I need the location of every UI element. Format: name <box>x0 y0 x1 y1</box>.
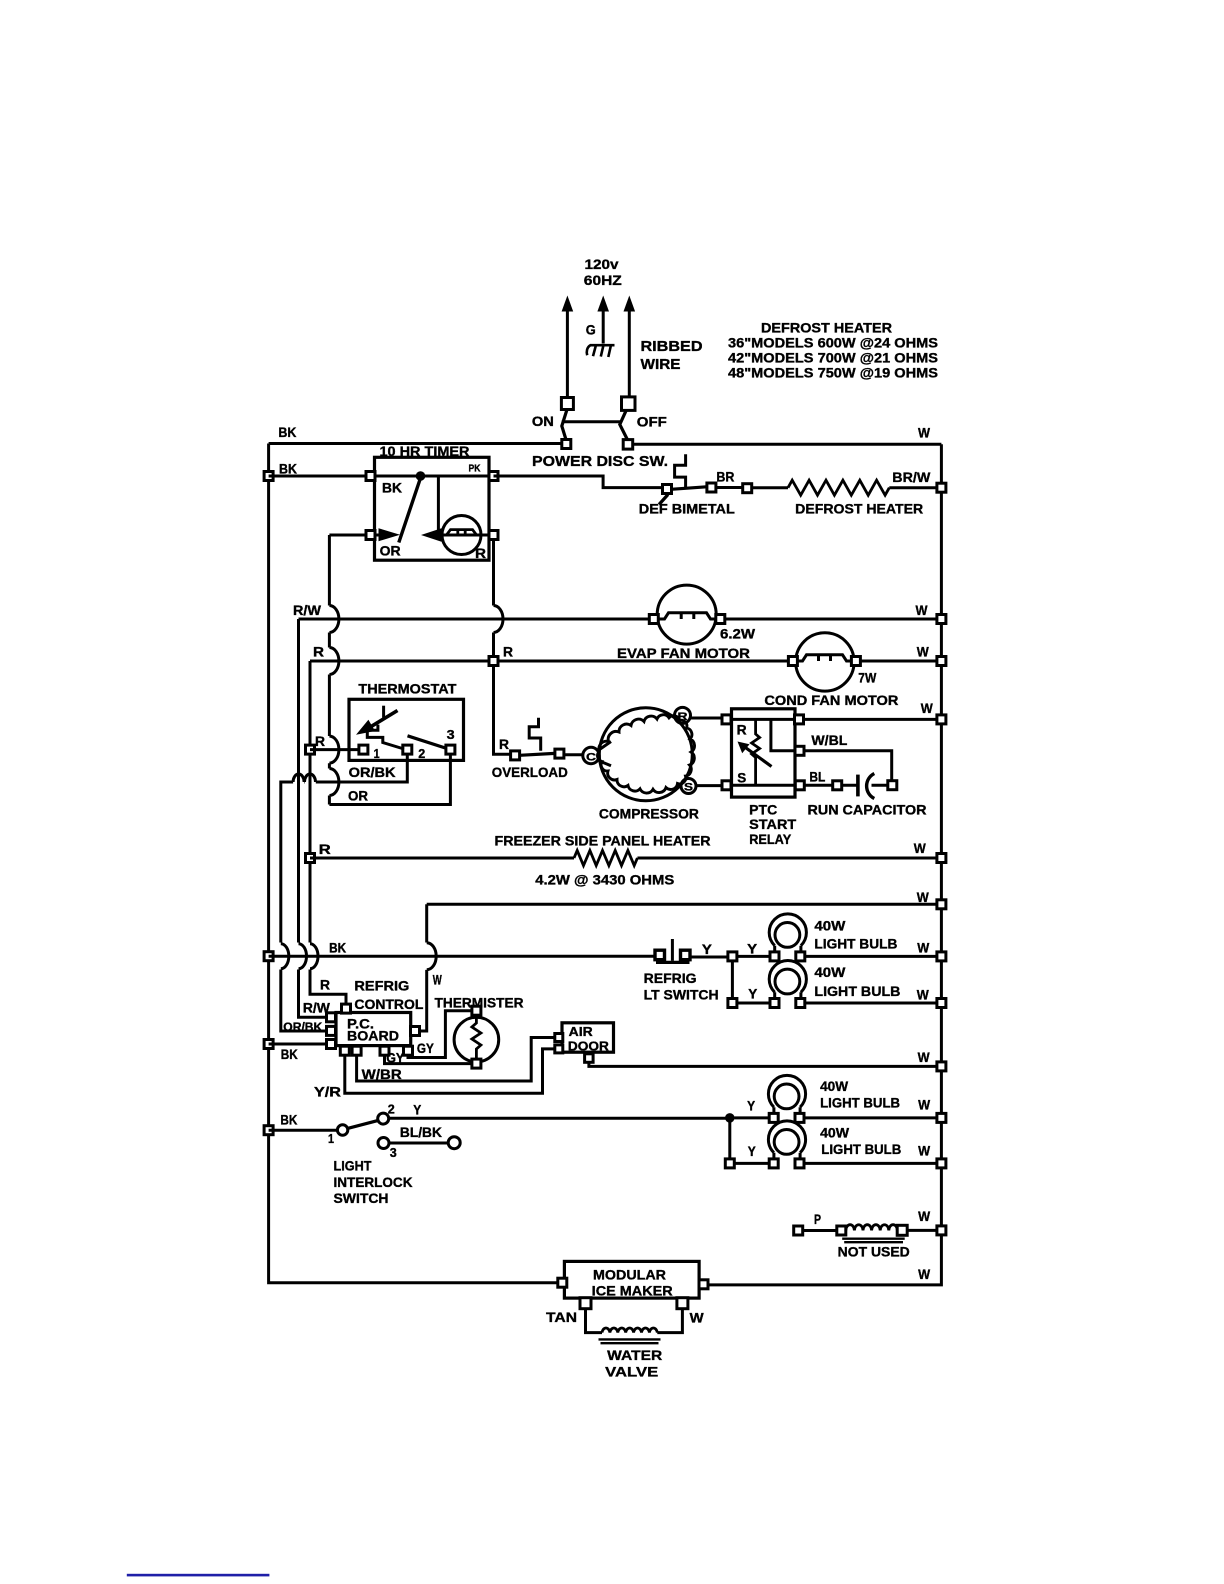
svg-text:VALVE: VALVE <box>605 1364 658 1379</box>
svg-text:GY: GY <box>417 1041 434 1056</box>
svg-text:BR: BR <box>716 469 734 484</box>
svg-text:40W: 40W <box>820 1126 849 1141</box>
svg-text:R/W: R/W <box>293 603 321 618</box>
svg-text:1: 1 <box>328 1131 334 1146</box>
svg-text:FREEZER SIDE PANEL HEATER: FREEZER SIDE PANEL HEATER <box>495 834 711 849</box>
svg-text:BL: BL <box>809 770 825 785</box>
svg-text:3: 3 <box>447 727 455 742</box>
svg-text:36"MODELS 600W @24 OHMS: 36"MODELS 600W @24 OHMS <box>728 335 938 350</box>
svg-text:Y: Y <box>747 941 757 956</box>
svg-text:4.2W @ 3430 OHMS: 4.2W @ 3430 OHMS <box>535 873 674 888</box>
svg-text:W: W <box>918 1097 930 1112</box>
svg-text:W: W <box>918 1267 930 1282</box>
svg-text:W: W <box>917 645 929 660</box>
svg-text:W: W <box>433 972 442 987</box>
svg-text:C: C <box>586 751 596 763</box>
svg-text:SWITCH: SWITCH <box>334 1191 389 1206</box>
svg-text:W: W <box>916 603 928 618</box>
svg-text:DEFROST HEATER: DEFROST HEATER <box>761 321 892 336</box>
svg-text:MODULAR: MODULAR <box>593 1268 666 1283</box>
svg-text:W: W <box>690 1311 704 1326</box>
svg-text:W/BL: W/BL <box>811 733 847 748</box>
svg-text:W: W <box>917 988 929 1003</box>
svg-text:2: 2 <box>388 1101 395 1116</box>
svg-text:THERMOSTAT: THERMOSTAT <box>358 682 457 697</box>
svg-text:PK: PK <box>469 464 482 475</box>
svg-text:BR/W: BR/W <box>892 470 930 485</box>
svg-text:OFF: OFF <box>637 414 667 429</box>
svg-text:LIGHT: LIGHT <box>334 1158 373 1173</box>
svg-text:OR: OR <box>380 543 401 558</box>
svg-text:R: R <box>315 734 325 749</box>
svg-text:EVAP FAN MOTOR: EVAP FAN MOTOR <box>617 646 750 661</box>
svg-text:GY: GY <box>386 1051 404 1066</box>
svg-text:TAN: TAN <box>546 1310 577 1325</box>
svg-text:BK: BK <box>278 425 296 440</box>
svg-text:BL/BK: BL/BK <box>400 1125 442 1140</box>
svg-text:REFRIG: REFRIG <box>354 979 409 994</box>
svg-text:W: W <box>921 701 933 716</box>
svg-text:R: R <box>678 711 688 723</box>
svg-text:BK: BK <box>329 941 346 956</box>
svg-text:Y/R: Y/R <box>314 1085 341 1100</box>
svg-text:S: S <box>737 771 746 786</box>
svg-text:OVERLOAD: OVERLOAD <box>492 765 568 780</box>
svg-text:W/BR: W/BR <box>362 1067 402 1082</box>
svg-text:Y: Y <box>747 1099 755 1114</box>
svg-text:POWER DISC SW.: POWER DISC SW. <box>532 454 668 470</box>
svg-text:W: W <box>914 841 926 856</box>
svg-text:10 HR TIMER: 10 HR TIMER <box>380 444 470 459</box>
svg-text:ON: ON <box>532 414 554 429</box>
svg-text:48"MODELS 750W @19 OHMS: 48"MODELS 750W @19 OHMS <box>728 365 938 380</box>
svg-text:7W: 7W <box>858 670 876 685</box>
svg-text:WIRE: WIRE <box>641 357 681 373</box>
svg-text:G: G <box>586 323 596 338</box>
svg-text:BK: BK <box>279 462 297 477</box>
svg-text:LIGHT BULB: LIGHT BULB <box>821 1142 901 1157</box>
svg-text:BOARD: BOARD <box>347 1029 399 1044</box>
svg-text:WATER: WATER <box>607 1348 662 1363</box>
svg-text:START: START <box>749 817 797 832</box>
svg-text:LIGHT BULB: LIGHT BULB <box>820 1096 900 1111</box>
svg-text:120v: 120v <box>585 257 620 272</box>
svg-text:RIBBED: RIBBED <box>641 339 703 355</box>
svg-text:BK: BK <box>281 1047 298 1062</box>
svg-text:OR/BK: OR/BK <box>349 765 396 780</box>
svg-text:R: R <box>319 842 331 857</box>
svg-text:AIR: AIR <box>569 1025 593 1039</box>
svg-text:1: 1 <box>374 746 380 761</box>
svg-text:Y: Y <box>413 1102 421 1117</box>
svg-text:40W: 40W <box>820 1079 848 1094</box>
svg-text:3: 3 <box>390 1145 397 1160</box>
svg-text:R: R <box>499 737 509 752</box>
svg-text:R: R <box>737 723 747 738</box>
svg-text:DEF BIMETAL: DEF BIMETAL <box>639 502 735 517</box>
svg-text:OR/BK: OR/BK <box>283 1020 322 1034</box>
svg-text:BK: BK <box>280 1113 297 1128</box>
svg-text:W: W <box>918 1144 930 1159</box>
svg-text:R/W: R/W <box>303 1001 330 1016</box>
svg-text:NOT USED: NOT USED <box>838 1245 910 1260</box>
svg-text:ICE MAKER: ICE MAKER <box>592 1283 673 1298</box>
svg-text:REFRIG: REFRIG <box>644 971 697 986</box>
svg-text:60HZ: 60HZ <box>584 273 622 288</box>
svg-text:W: W <box>917 941 929 956</box>
svg-text:W: W <box>918 426 930 441</box>
svg-text:COMPRESSOR: COMPRESSOR <box>599 807 699 822</box>
svg-text:LIGHT BULB: LIGHT BULB <box>814 984 900 999</box>
svg-text:OR: OR <box>348 789 368 804</box>
svg-text:INTERLOCK: INTERLOCK <box>334 1175 413 1190</box>
svg-text:W: W <box>917 890 929 905</box>
svg-text:S: S <box>684 782 693 794</box>
svg-text:DOOR: DOOR <box>568 1040 609 1054</box>
svg-text:R: R <box>503 645 513 660</box>
svg-text:CONTROL: CONTROL <box>354 997 423 1012</box>
svg-text:P: P <box>814 1212 821 1227</box>
svg-text:LT SWITCH: LT SWITCH <box>644 988 719 1003</box>
svg-text:42"MODELS 700W @21 OHMS: 42"MODELS 700W @21 OHMS <box>728 350 938 365</box>
svg-text:R: R <box>320 977 330 992</box>
svg-text:Y: Y <box>748 986 757 1001</box>
svg-text:LIGHT BULB: LIGHT BULB <box>814 936 897 951</box>
svg-text:BK: BK <box>382 481 402 496</box>
svg-text:40W: 40W <box>814 918 845 933</box>
svg-text:COND FAN MOTOR: COND FAN MOTOR <box>764 693 898 708</box>
svg-text:PTC: PTC <box>749 803 777 818</box>
svg-text:R: R <box>475 546 486 561</box>
svg-text:R: R <box>313 645 324 660</box>
svg-text:W: W <box>918 1050 930 1065</box>
svg-text:W: W <box>918 1209 930 1224</box>
svg-text:RELAY: RELAY <box>749 832 791 847</box>
svg-text:DEFROST HEATER: DEFROST HEATER <box>795 502 923 517</box>
svg-text:2: 2 <box>418 746 425 761</box>
svg-text:RUN CAPACITOR: RUN CAPACITOR <box>808 803 927 818</box>
svg-text:40W: 40W <box>814 965 845 980</box>
svg-text:6.2W: 6.2W <box>720 627 755 642</box>
svg-text:Y: Y <box>748 1144 756 1159</box>
svg-text:Y: Y <box>702 942 712 957</box>
